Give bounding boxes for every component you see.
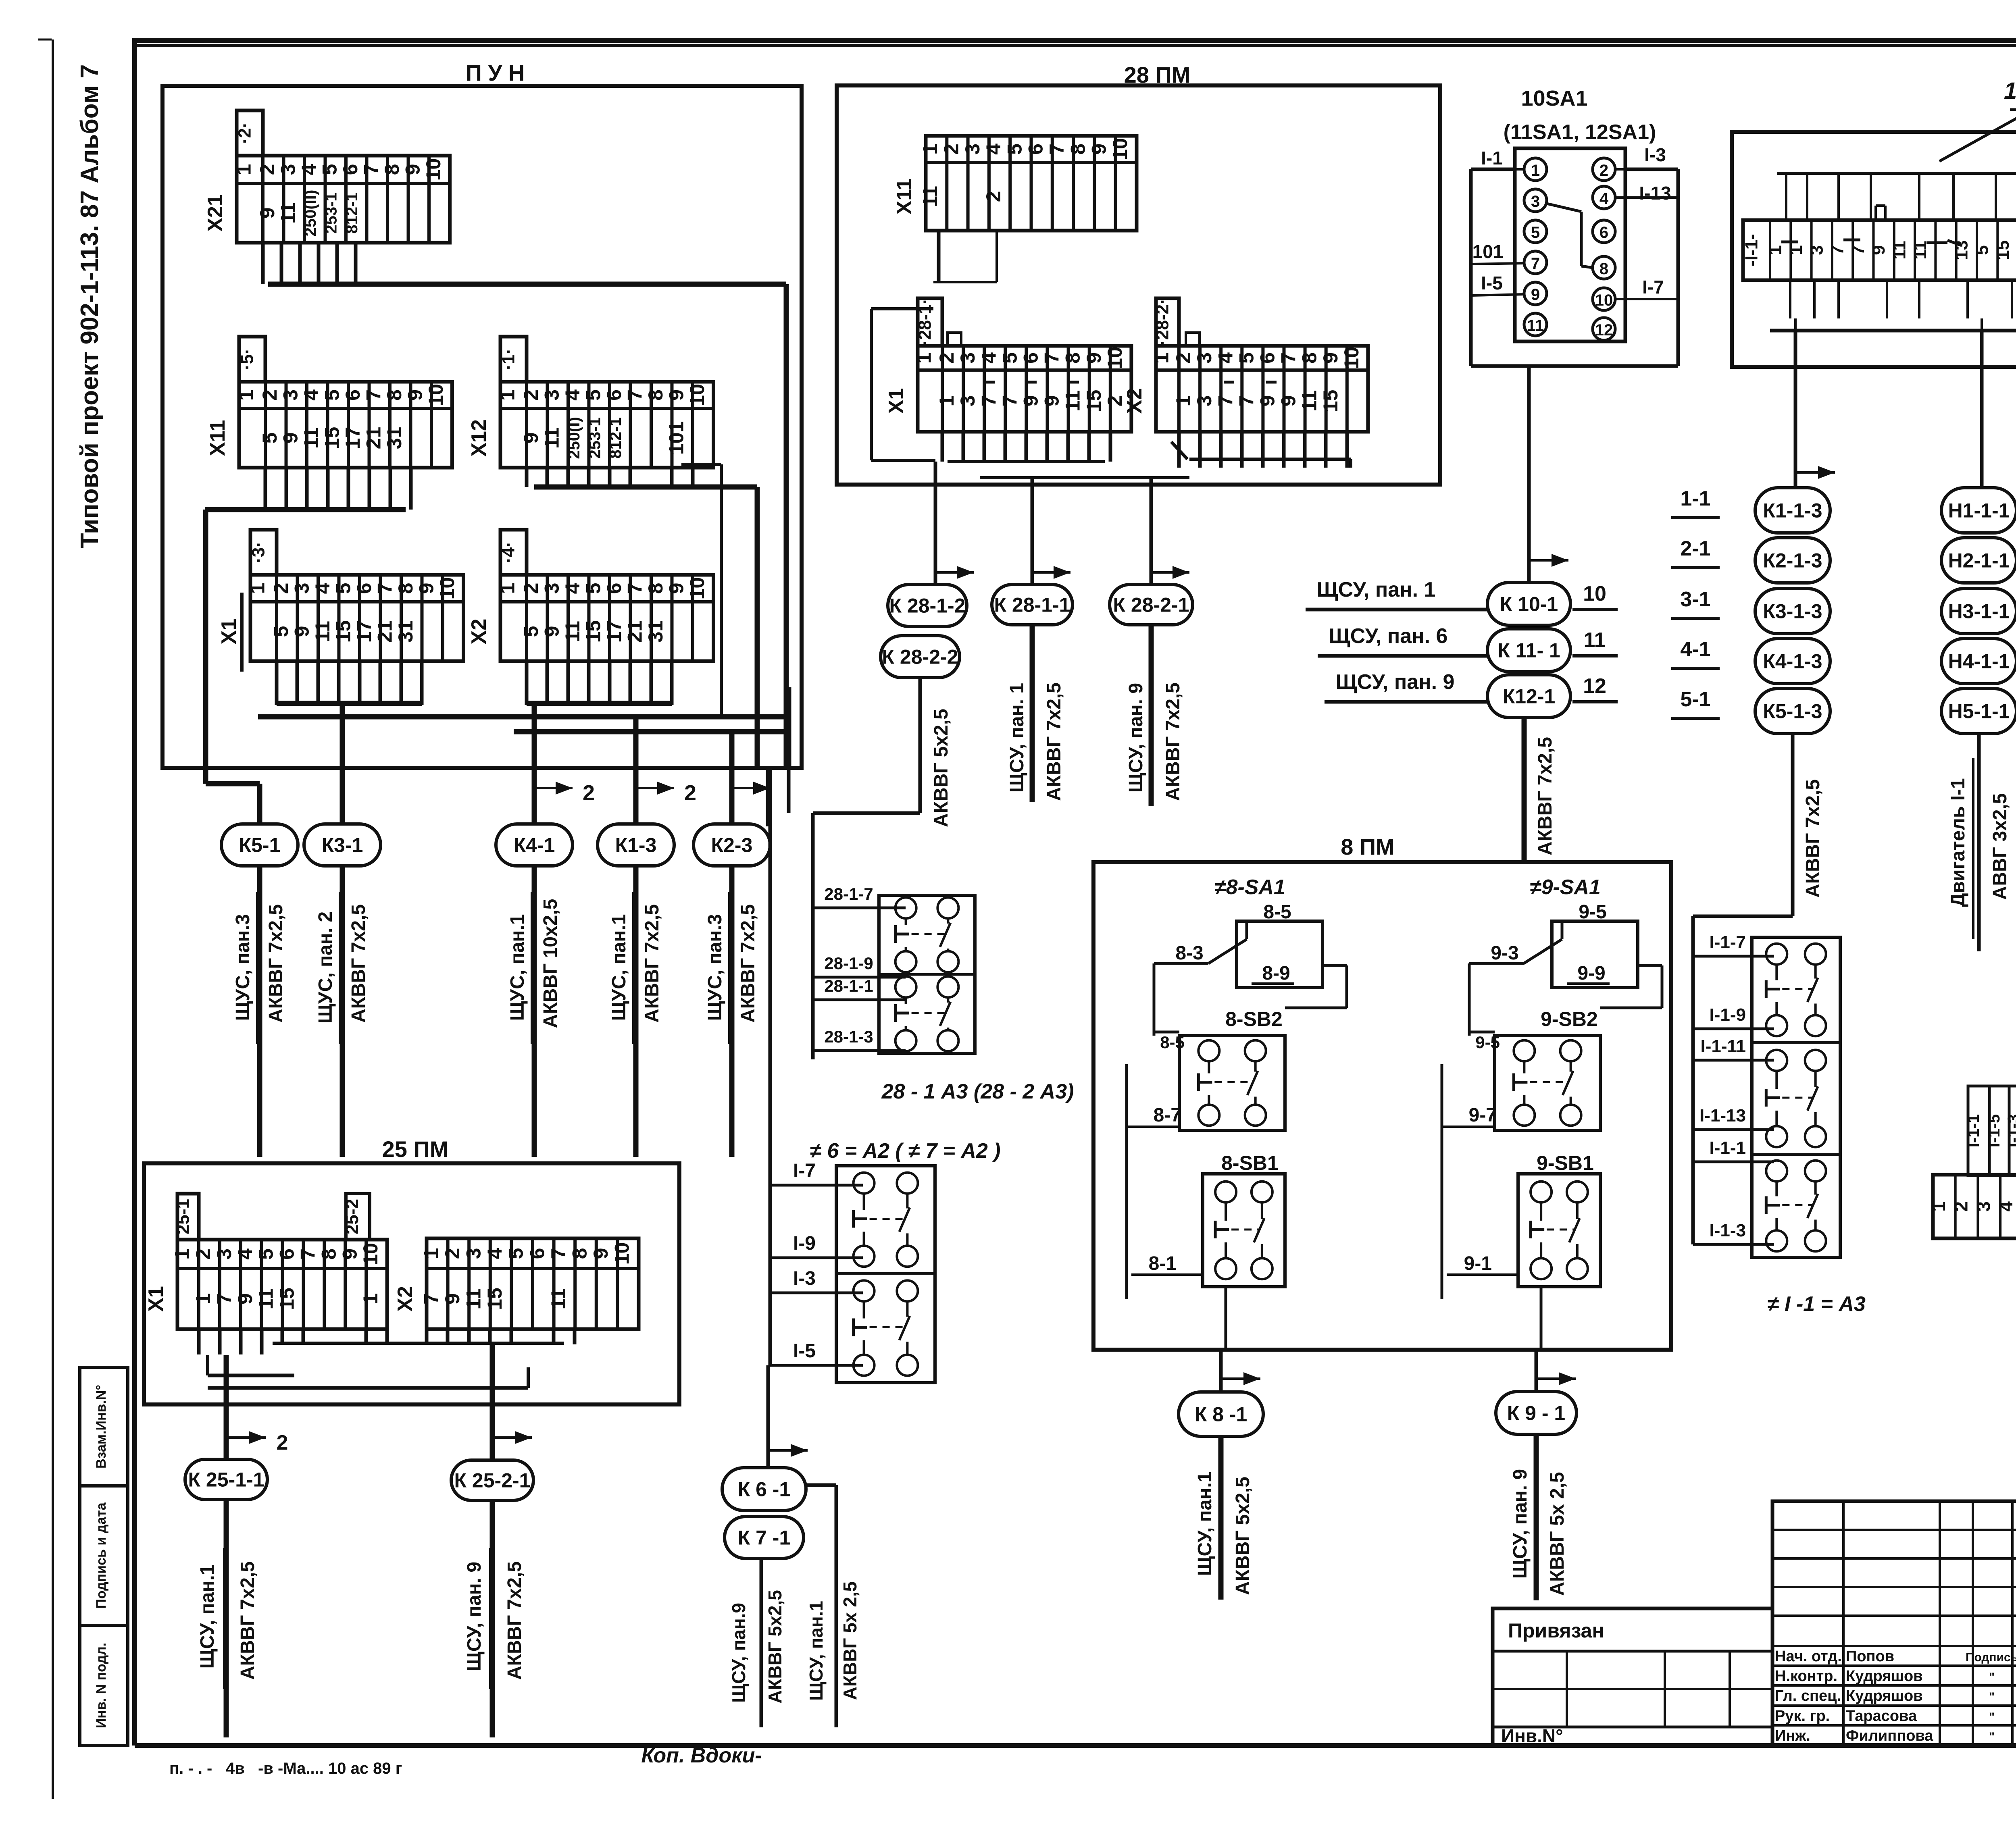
- svg-text:I-5: I-5: [793, 1340, 816, 1362]
- svg-text:I-1-7: I-1-7: [1710, 932, 1746, 952]
- svg-text:28-1-1: 28-1-1: [824, 976, 873, 995]
- svg-text:28-1-7: 28-1-7: [824, 884, 873, 903]
- relay oval К1-1-3: [1755, 488, 1830, 533]
- wire drop 1-1ХТ to Н1-1-1: [1980, 331, 1984, 489]
- svg-text:К5-1: К5-1: [239, 834, 281, 857]
- svg-text:21: 21: [373, 620, 396, 643]
- svg-text:9-7: 9-7: [1469, 1105, 1497, 1126]
- svg-text:15: 15: [1319, 390, 1342, 412]
- wire I-7 (10SA1 pin10): [1614, 277, 1678, 299]
- svg-text:31: 31: [394, 620, 417, 643]
- svg-text:3: 3: [956, 395, 979, 407]
- wire stubs below X2 (28ПМ): [1179, 431, 1347, 468]
- relay oval К28-1-1: [992, 585, 1073, 625]
- svg-text:9-SB1: 9-SB1: [1537, 1152, 1594, 1174]
- svg-text:4: 4: [311, 583, 334, 594]
- svg-text:П У Н: П У Н: [466, 60, 525, 85]
- button 8-SB2: [1179, 1036, 1285, 1130]
- svg-text:5: 5: [318, 164, 341, 175]
- svg-text:3: 3: [1193, 352, 1216, 364]
- wire I-9: [770, 1233, 863, 1258]
- svg-text:5: 5: [1003, 144, 1026, 155]
- wire drop to К8-1: [1225, 1287, 1227, 1350]
- svg-text:Двигатель I-1: Двигатель I-1: [1947, 778, 1969, 907]
- svg-text:11: 11: [300, 427, 323, 449]
- svg-text:К 8 -1: К 8 -1: [1195, 1403, 1248, 1426]
- svg-text:АКВВГ 7х2,5: АКВВГ 7х2,5: [1162, 682, 1184, 801]
- svg-text:Х2: Х2: [1123, 388, 1146, 414]
- relay oval К28-1-2: [888, 585, 967, 626]
- relay oval К 10-1: [1487, 583, 1570, 625]
- svg-text:2: 2: [935, 352, 958, 364]
- svg-text:9-3: 9-3: [1491, 942, 1518, 964]
- svg-text:I-3: I-3: [1644, 144, 1666, 165]
- svg-text:10: 10: [1583, 582, 1606, 605]
- left stamp box Инв.N подл.: [80, 1625, 128, 1746]
- svg-text:2: 2: [270, 583, 292, 594]
- svg-text:1: 1: [1172, 395, 1195, 407]
- cable below К5-1: [232, 866, 287, 1157]
- wire jog X11 to X1 (28ПМ): [871, 282, 997, 460]
- svg-text:5: 5: [582, 583, 604, 594]
- svg-text:-I-1-: -I-1-: [1742, 234, 1762, 266]
- svg-text:I-9: I-9: [793, 1233, 816, 1254]
- terminal block X21: [204, 110, 450, 243]
- title stamp Привязан box: [1493, 1608, 1772, 1746]
- label 8-5: [1263, 901, 1291, 923]
- terminal strip 1-1ХТ cells: [1742, 220, 2016, 280]
- svg-text:7: 7: [213, 1293, 235, 1304]
- svg-text:8: 8: [644, 583, 667, 594]
- svg-text:9: 9: [589, 1248, 612, 1259]
- svg-text:АКВВГ 7х2,5: АКВВГ 7х2,5: [1802, 779, 1824, 898]
- label ЩСУ, пан. 9: [1325, 670, 1488, 702]
- svg-text:11: 11: [919, 186, 941, 207]
- svg-text:2: 2: [520, 583, 542, 594]
- svg-text:1-1: 1-1: [1680, 487, 1710, 510]
- svg-text:I-1-11: I-1-11: [1700, 1036, 1746, 1056]
- svg-text:8: 8: [1062, 352, 1084, 364]
- svg-text:К 9 - 1: К 9 - 1: [1507, 1402, 1565, 1425]
- svg-text:I-5: I-5: [1481, 273, 1503, 293]
- relay oval К28-2-2: [881, 636, 960, 678]
- svg-text:·5·: ·5·: [237, 348, 257, 370]
- svg-text:ЩУС, пан.3: ЩУС, пан.3: [232, 914, 254, 1021]
- svg-text:5: 5: [270, 626, 292, 637]
- switch 9-SA1 contact box: [1552, 921, 1638, 988]
- svg-text:5: 5: [520, 626, 542, 637]
- relay oval Н3-1-1: [1941, 589, 2016, 634]
- label ЩСУ, пан. 6: [1318, 624, 1488, 656]
- wire drop to К25-2-1: [492, 1345, 532, 1459]
- svg-text:Инв.N°: Инв.N°: [1501, 1725, 1563, 1746]
- wire buses below X1 X2 (28ПМ): [948, 442, 1351, 478]
- svg-text:4: 4: [1995, 1201, 2016, 1212]
- svg-text:": ": [1989, 1730, 1995, 1743]
- switch 8-SA1 contact box: [1237, 921, 1322, 988]
- svg-text:1: 1: [919, 144, 941, 155]
- svg-text:4: 4: [300, 389, 323, 401]
- svg-text:I-1-5: I-1-5: [1985, 1114, 2003, 1147]
- svg-text:1: 1: [246, 583, 269, 594]
- svg-text:Н3-1-1: Н3-1-1: [1948, 600, 2010, 623]
- svg-text:АКВВГ 7х2,5: АКВВГ 7х2,5: [237, 1561, 258, 1680]
- svg-text:10: 10: [686, 577, 708, 600]
- cable below К7-1: [760, 1558, 763, 1727]
- wire drop to К28-2-1: [1151, 478, 1189, 584]
- svg-text:5: 5: [321, 389, 343, 401]
- relay oval К2-3: [694, 824, 770, 866]
- svg-text:≠ 6 = А2 ( ≠ 7 = А2 ): ≠ 6 = А2 ( ≠ 7 = А2 ): [810, 1139, 1000, 1163]
- wire drop to К6-1: [768, 1365, 808, 1468]
- svg-text:Рук. гр.: Рук. гр.: [1775, 1708, 1830, 1725]
- button 8-SB1: [1203, 1174, 1285, 1287]
- svg-text:11: 11: [311, 621, 334, 642]
- svg-text:ЩСУ, пан.1: ЩСУ, пан.1: [806, 1601, 827, 1701]
- svg-text:Гл. спец.: Гл. спец.: [1775, 1687, 1841, 1704]
- svg-text:28-1-9: 28-1-9: [824, 954, 873, 973]
- relay oval К8-1: [1179, 1392, 1263, 1436]
- wire drop to К28-1-1: [1032, 478, 1070, 584]
- svg-text:7: 7: [362, 389, 385, 401]
- node number 10: [1572, 582, 1618, 610]
- svg-text:31: 31: [383, 427, 406, 449]
- svg-text:8: 8: [317, 1248, 340, 1260]
- svg-text:Х11: Х11: [206, 420, 229, 456]
- wires 9-SA group: [1442, 963, 1662, 1299]
- node label 2-1: [1671, 537, 1720, 568]
- svg-text:3: 3: [961, 144, 984, 155]
- svg-text:Инв. N подл.: Инв. N подл.: [94, 1643, 109, 1728]
- svg-text:6: 6: [1256, 352, 1279, 364]
- svg-text:4: 4: [483, 1248, 506, 1259]
- panel box ПУН: [162, 60, 802, 768]
- svg-text:АКВВГ 7х2,5: АКВВГ 7х2,5: [641, 904, 663, 1023]
- svg-text:1: 1: [235, 389, 258, 401]
- svg-text:ЩСУ, пан. 9: ЩСУ, пан. 9: [464, 1562, 485, 1671]
- label ЩСУ, пан. 1: [1306, 578, 1488, 610]
- switch 9-SB1 label: [1537, 1152, 1594, 1174]
- wire drop to К9-1: [1540, 1287, 1543, 1350]
- wire bus from X11: [205, 510, 406, 784]
- svg-text:3: 3: [1807, 245, 1826, 255]
- svg-text:≠ I -1 = А3: ≠ I -1 = А3: [1767, 1292, 1866, 1316]
- svg-text:I-1-3: I-1-3: [2005, 1114, 2016, 1147]
- svg-text:9: 9: [404, 389, 426, 401]
- svg-text:9: 9: [665, 583, 687, 594]
- svg-text:АКВВГ 7х2,5: АКВВГ 7х2,5: [348, 904, 369, 1023]
- button 9-SB1: [1518, 1174, 1600, 1287]
- relay oval К1-3: [598, 824, 674, 866]
- wire drop to К25-1-1: [226, 1355, 288, 1458]
- svg-text:8-5: 8-5: [1160, 1033, 1185, 1052]
- svg-text:9: 9: [1869, 245, 1889, 255]
- svg-text:5-1: 5-1: [1680, 688, 1710, 711]
- wire I-3 (10SA1 pin2): [1614, 144, 1678, 169]
- handwritten Коп: [641, 1744, 762, 1767]
- svg-text:1: 1: [359, 1293, 382, 1304]
- svg-text:АКВВГ 7х2,5: АКВВГ 7х2,5: [1535, 737, 1556, 855]
- svg-text:К 6 -1: К 6 -1: [738, 1478, 791, 1501]
- svg-text:ЩСУ, пан.9: ЩСУ, пан.9: [728, 1603, 749, 1703]
- svg-text:К3-1-3: К3-1-3: [1763, 600, 1822, 623]
- wire drop to К28-1-2: [935, 462, 974, 585]
- svg-text:11: 11: [462, 1288, 485, 1310]
- svg-text:12: 12: [1583, 674, 1606, 698]
- svg-text:Коп. Вдоки-: Коп. Вдоки-: [641, 1744, 762, 1767]
- switch 9-SA1 label: [1530, 876, 1601, 899]
- svg-text:·2·: ·2·: [235, 122, 255, 144]
- switch 10SA1 contact circles: [1524, 158, 1615, 340]
- svg-text:ЩСУ, пан. 9: ЩСУ, пан. 9: [1125, 683, 1147, 793]
- label 1-1ХТ ÷ 5-1ХТ: [1939, 78, 2016, 161]
- svg-text:Кудряшов: Кудряшов: [1846, 1668, 1923, 1685]
- relay oval К5-1: [221, 824, 298, 866]
- svg-text:6: 6: [1025, 144, 1047, 155]
- svg-text:9: 9: [540, 626, 563, 637]
- svg-text:7: 7: [1235, 395, 1258, 407]
- relay oval К9-1: [1496, 1392, 1577, 1434]
- svg-text:2: 2: [1951, 1201, 1972, 1212]
- sheet margin line: [52, 40, 54, 1799]
- svg-text:1: 1: [1766, 245, 1785, 255]
- svg-text:5: 5: [332, 583, 354, 594]
- svg-text:6: 6: [353, 583, 375, 594]
- svg-text:15: 15: [1083, 390, 1105, 412]
- node label 5-1: [1671, 688, 1720, 718]
- switch 10SA1 inner box: [1515, 148, 1625, 341]
- svg-text:25-1: 25-1: [173, 1199, 193, 1234]
- node label 3-1: [1671, 588, 1720, 618]
- terminal strip Сальниковый ввод: [1928, 1175, 2016, 1238]
- svg-text:1: 1: [1150, 352, 1173, 364]
- wire buses below X1 X2 (25ПМ): [208, 1343, 564, 1388]
- svg-text:7: 7: [1214, 395, 1237, 407]
- cable labels К7-1: [728, 1590, 785, 1704]
- svg-text:28-1-3: 28-1-3: [824, 1027, 873, 1046]
- svg-text:7: 7: [1848, 245, 1868, 255]
- svg-text:Х1: Х1: [885, 388, 908, 414]
- svg-text:Н4-1-1: Н4-1-1: [1948, 650, 2010, 673]
- svg-text:8: 8: [1066, 144, 1089, 155]
- svg-text:I-1-3: I-1-3: [1710, 1221, 1746, 1240]
- svg-text:15: 15: [321, 427, 343, 449]
- wire drop 8ПМ to К9-1: [1536, 1350, 1576, 1392]
- svg-text:п. - . -: п. - . -: [169, 1760, 212, 1777]
- node number 12: [1572, 674, 1618, 702]
- svg-text:2: 2: [1599, 162, 1608, 179]
- svg-text:К4-1-3: К4-1-3: [1763, 650, 1822, 673]
- svg-text:7: 7: [977, 395, 1000, 407]
- svg-text:9-5: 9-5: [1475, 1033, 1500, 1052]
- svg-text:8-3: 8-3: [1175, 942, 1203, 964]
- wire I-1-13: [1693, 1106, 1774, 1130]
- svg-text:АКВВГ 5х2,5: АКВВГ 5х2,5: [1232, 1477, 1254, 1595]
- svg-text:3: 3: [1973, 1201, 1994, 1212]
- svg-text:2: 2: [940, 144, 962, 155]
- svg-text:9: 9: [1088, 144, 1110, 155]
- svg-text:3: 3: [540, 389, 563, 401]
- cable from К6-1 right: [806, 1485, 836, 1727]
- svg-text:Филиппова: Филиппова: [1846, 1727, 1933, 1744]
- link tag 25-2 above X1 col9: [342, 1194, 370, 1240]
- relay oval К28-2-1: [1110, 585, 1193, 625]
- switch 10SA1 moving contact: [1547, 204, 1593, 268]
- svg-text:10: 10: [611, 1242, 633, 1265]
- relay oval К3-1: [304, 824, 381, 866]
- wire stubs below X12: [527, 467, 693, 487]
- wire drop to К2-3: [729, 732, 735, 824]
- svg-text:25 ПМ: 25 ПМ: [382, 1136, 449, 1162]
- svg-text:1-1ХТ ÷ 5-1ХТ: 1-1ХТ ÷ 5-1ХТ: [2004, 78, 2016, 104]
- svg-text:9: 9: [1277, 395, 1300, 407]
- caption ≠6=А2 (≠7=А2): [810, 1139, 1000, 1163]
- panel box 8 ПМ: [1093, 834, 1671, 1350]
- svg-text:Н2-1-1: Н2-1-1: [1948, 549, 2010, 572]
- svg-text:Н5-1-1: Н5-1-1: [1948, 700, 2010, 723]
- wire drop 1-1ХТ to К1-1-3: [1795, 331, 1835, 489]
- svg-text:253-1: 253-1: [586, 417, 604, 458]
- svg-text:Взам.Инв.N°: Взам.Инв.N°: [94, 1385, 109, 1469]
- svg-text:Х12: Х12: [467, 419, 491, 457]
- cable below К3-1: [315, 866, 369, 1157]
- wire 28-1-1: [813, 976, 906, 1000]
- svg-text:1: 1: [1531, 162, 1540, 179]
- svg-text:17: 17: [342, 427, 364, 449]
- svg-text:11: 11: [1062, 390, 1084, 412]
- svg-text:5: 5: [258, 433, 281, 444]
- label 8-9: [1252, 963, 1294, 984]
- svg-text:3: 3: [290, 583, 313, 594]
- svg-text:9: 9: [1019, 395, 1042, 407]
- svg-text:·1·: ·1·: [499, 348, 519, 370]
- svg-text:9-9: 9-9: [1577, 963, 1605, 984]
- svg-text:1: 1: [935, 395, 958, 407]
- svg-text:АКВВГ 7х2,5: АКВВГ 7х2,5: [1043, 682, 1065, 801]
- svg-text:6: 6: [1599, 224, 1608, 241]
- relay oval К6-1: [722, 1468, 806, 1510]
- svg-text:Х1: Х1: [144, 1286, 168, 1312]
- relay oval Н4-1-1: [1941, 639, 2016, 684]
- wire I-1-11: [1693, 1036, 1774, 1060]
- wire drop to К3-1: [340, 703, 345, 824]
- svg-text:6: 6: [603, 583, 625, 594]
- svg-text:Н.контр.: Н.контр.: [1775, 1668, 1837, 1685]
- svg-text:": ": [1989, 1690, 1995, 1704]
- wire drop to К4-1: [532, 703, 537, 824]
- svg-text:101: 101: [665, 421, 687, 455]
- svg-text:4: 4: [977, 352, 1000, 364]
- terminal block X2 (25ПМ): [394, 1238, 639, 1329]
- svg-text:I-1-9: I-1-9: [1710, 1005, 1746, 1025]
- svg-text:4: 4: [982, 144, 1005, 155]
- svg-text:3: 3: [277, 164, 299, 175]
- svg-text:3: 3: [462, 1248, 485, 1259]
- svg-text:Х2: Х2: [394, 1286, 417, 1312]
- terminal block X2 (ПУН): [467, 530, 714, 661]
- svg-text:АКВВГ 5х2,5: АКВВГ 5х2,5: [764, 1590, 785, 1704]
- svg-text:9: 9: [415, 583, 437, 594]
- terminal block X11 (ПУН): [206, 337, 452, 468]
- terminal block X1 (ПУН): [217, 530, 464, 661]
- svg-text:10: 10: [1595, 291, 1613, 309]
- cable from К28-2-2 to 28-1А3: [813, 678, 952, 1059]
- svg-text:8-9: 8-9: [1262, 963, 1290, 984]
- svg-text:I-1-13: I-1-13: [1699, 1106, 1746, 1126]
- svg-text:Подпись: Подпись: [1966, 1651, 2016, 1664]
- wire bus from X21: [268, 284, 786, 768]
- svg-text:7: 7: [623, 583, 646, 594]
- wire stubs below strip 1-1ХТ: [1770, 173, 2016, 367]
- wire stubs below X11 (28ПМ): [939, 231, 997, 282]
- svg-text:ЩСУ, пан. 1: ЩСУ, пан. 1: [1006, 683, 1028, 793]
- relay oval К2-1-3: [1755, 538, 1830, 583]
- svg-text:-в -Ма.... 10 ас 89 г: -в -Ма.... 10 ас 89 г: [258, 1760, 402, 1777]
- svg-text:Х21: Х21: [204, 194, 227, 232]
- svg-text:5: 5: [1235, 352, 1258, 364]
- svg-text:·28-1·: ·28-1·: [915, 298, 935, 345]
- relay oval К3-1-3: [1755, 589, 1830, 634]
- switch 9-SB2 label: [1541, 1008, 1598, 1030]
- svg-text:4: 4: [561, 389, 584, 401]
- svg-text:9: 9: [234, 1293, 256, 1304]
- cable Двигатель I-1 below Н5-1-1: [1947, 734, 2011, 951]
- cable below К28-2-1: [1125, 625, 1184, 806]
- svg-text:АКВВГ 7х2,5: АКВВГ 7х2,5: [504, 1561, 525, 1680]
- svg-text:9: 9: [1041, 395, 1063, 407]
- svg-text:11: 11: [547, 1288, 570, 1310]
- svg-text:ЩУС, пан.1: ЩУС, пан.1: [507, 914, 528, 1021]
- svg-text:3: 3: [279, 389, 302, 401]
- label 9-5 small: [1475, 1033, 1500, 1052]
- svg-text:7: 7: [1277, 352, 1300, 364]
- wire stubs below X1 (28ПМ): [942, 431, 1110, 462]
- wire I-3: [770, 1268, 863, 1293]
- relay oval К25-1-1: [185, 1459, 267, 1500]
- svg-text:2: 2: [583, 781, 595, 805]
- svg-text:8-7: 8-7: [1154, 1105, 1181, 1126]
- svg-text:Типовой проект 902-1-113. 87: Типовой проект 902-1-113. 87 Альбом 7: [76, 64, 104, 549]
- label 9-1: [1447, 1253, 1518, 1275]
- svg-text:": ": [1989, 1671, 1995, 1684]
- svg-text:8-SB1: 8-SB1: [1221, 1152, 1279, 1174]
- wire I-7: [770, 1160, 863, 1185]
- svg-text:12: 12: [1595, 321, 1613, 339]
- svg-text:4: 4: [561, 583, 584, 594]
- svg-text:3: 3: [540, 583, 563, 594]
- label 9-9: [1567, 963, 1610, 984]
- wire 101 (10SA1 pin7): [1471, 241, 1525, 264]
- relay oval К5-1-3: [1755, 689, 1830, 734]
- svg-text:21: 21: [623, 620, 646, 643]
- terminal block X1 (25ПМ): [144, 1194, 387, 1329]
- svg-text:250(I): 250(I): [565, 417, 583, 459]
- svg-text:9: 9: [520, 433, 542, 444]
- svg-text:7: 7: [1828, 245, 1847, 255]
- svg-text:ЩУС, пан.1: ЩУС, пан.1: [608, 914, 630, 1021]
- button 9-SB2: [1495, 1036, 1600, 1130]
- cable below К4-1: [507, 781, 595, 1157]
- svg-text:I-13: I-13: [1639, 183, 1671, 204]
- svg-text:253-1: 253-1: [322, 192, 340, 233]
- svg-text:10: 10: [686, 384, 708, 406]
- svg-text:5: 5: [998, 352, 1021, 364]
- wire stubs below X1 (ПУН): [277, 660, 422, 705]
- svg-text:Привязан: Привязан: [1508, 1619, 1604, 1642]
- svg-text:10: 10: [436, 577, 458, 600]
- svg-text:4: 4: [234, 1248, 256, 1260]
- svg-text:9-1: 9-1: [1464, 1253, 1492, 1274]
